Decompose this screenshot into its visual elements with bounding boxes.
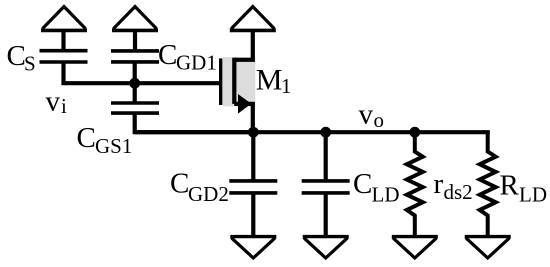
ground triangle below RLD — [465, 237, 511, 258]
svg-text:GS1: GS1 — [95, 134, 132, 158]
junction node CLD — [320, 127, 331, 138]
capacitor CGS1 — [111, 103, 159, 113]
capacitor CGD2 — [229, 181, 277, 193]
svg-text:C: C — [7, 40, 26, 72]
label vo — [359, 99, 385, 133]
svg-text:v: v — [46, 85, 61, 117]
svg-text:LD: LD — [372, 183, 400, 207]
label CGD2 — [170, 167, 229, 206]
transistor M1 gate bar — [219, 58, 222, 105]
svg-text:C: C — [77, 122, 96, 154]
supply triangle above M1 — [230, 7, 276, 31]
svg-text:LD: LD — [519, 183, 547, 207]
label CGD1 — [158, 39, 217, 75]
label RLD — [500, 170, 548, 207]
label M1 — [256, 63, 292, 98]
transistor M1 highlight box — [223, 57, 255, 106]
label vi — [46, 85, 68, 118]
transistor M1 source wire — [234, 104, 253, 132]
capacitor CS — [40, 51, 88, 62]
label CGS1 — [77, 122, 133, 158]
svg-text:v: v — [359, 99, 374, 131]
wire triangle to CS top — [61, 31, 65, 51]
junction node vi — [129, 78, 140, 89]
junction node source — [248, 127, 259, 138]
supply triangle above CGD1 — [112, 7, 158, 31]
svg-text:R: R — [500, 170, 520, 202]
ground triangle below CLD — [303, 237, 349, 258]
transistor M1 channel bar — [232, 58, 236, 104]
transistor M1 source arrow — [238, 94, 251, 114]
wire rail to CLD — [324, 132, 328, 181]
wire triangle to CGD1 top — [133, 31, 137, 51]
ground triangle below rds2 — [392, 237, 438, 258]
svg-text:ds2: ds2 — [444, 180, 473, 204]
wire rail to CGD2 — [251, 132, 255, 181]
svg-text:C: C — [170, 167, 189, 199]
wire CLD to ground — [324, 193, 328, 237]
junction node rds2 — [409, 127, 420, 138]
svg-text:C: C — [353, 168, 372, 200]
supply triangle above CS — [41, 7, 87, 31]
transistor M1 drain wire — [234, 31, 253, 60]
wire CS bottom to gate rail — [64, 62, 221, 83]
label rds2 — [434, 168, 473, 204]
svg-text:S: S — [24, 52, 36, 76]
resistor RLD — [480, 132, 496, 237]
svg-text:GD1: GD1 — [176, 51, 217, 75]
resistor rds2 — [407, 132, 423, 237]
wire CGS1 bottom to output rail — [135, 113, 254, 132]
label CLD — [353, 168, 400, 207]
svg-text:r: r — [434, 168, 444, 200]
svg-text:o: o — [374, 108, 385, 132]
wire CGD2 to ground — [251, 193, 255, 237]
ground triangle below CGD2 — [230, 237, 276, 258]
label CS — [7, 40, 36, 76]
capacitor CGD1 — [111, 51, 159, 62]
svg-text:GD2: GD2 — [188, 182, 229, 206]
svg-text:M: M — [256, 63, 283, 96]
svg-text:C: C — [158, 39, 177, 71]
capacitor CLD — [302, 181, 350, 193]
svg-text:i: i — [61, 94, 67, 118]
wire CGD1 bottom to CGS1 top — [133, 62, 137, 103]
output rail — [135, 130, 490, 134]
svg-text:1: 1 — [281, 74, 292, 98]
